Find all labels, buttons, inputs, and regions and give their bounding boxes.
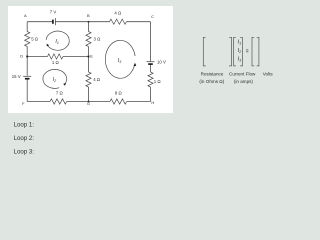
node E [88, 53, 94, 58]
wire A-B top segment [27, 21, 88, 23]
label 8 Ω [115, 91, 123, 96]
svg-text:E: E [90, 53, 93, 58]
resistor 4Ω (E-G) [86, 72, 91, 87]
svg-text:5 Ω: 5 Ω [31, 37, 39, 42]
svg-text:7 Ω: 7 Ω [56, 91, 64, 96]
label I2 vector entry [238, 48, 243, 54]
svg-text:Current Flow: Current Flow [229, 72, 256, 77]
label 5 Ω [31, 37, 39, 42]
node D [20, 53, 28, 58]
current vector left bracket [234, 37, 236, 66]
wire A-D left segment [26, 22, 28, 57]
label 1 Ω [154, 79, 162, 84]
wire D-E middle horizontal [27, 56, 88, 58]
svg-text:Loop 1:: Loop 1: [14, 121, 35, 128]
wire D-F left lower segment [26, 57, 28, 102]
label 15 V [12, 74, 21, 79]
battery 15V [23, 76, 31, 78]
label 3 Ω [94, 37, 102, 42]
resistor 8Ω (G-H) [110, 99, 127, 104]
svg-text:3 Ω: 3 Ω [94, 37, 102, 42]
label (in Ohms Ω) [199, 79, 224, 84]
svg-text:Volts: Volts [263, 71, 274, 76]
svg-text:7 V: 7 V [50, 9, 57, 14]
current vector right bracket [240, 37, 242, 66]
battery 7V [53, 18, 56, 25]
node B [87, 13, 90, 23]
node H [151, 100, 154, 105]
svg-text:15 V: 15 V [12, 74, 21, 79]
resistance matrix left bracket [203, 37, 205, 66]
label I1 [55, 39, 59, 45]
resistor 4Ω (B-C) [110, 19, 127, 24]
label I3 vector entry [238, 56, 243, 62]
battery 10V [147, 62, 155, 64]
label Loop 2 [14, 135, 35, 142]
label 7 V [50, 9, 57, 14]
resistor 1Ω (D-E) [48, 54, 63, 59]
equals sign [246, 50, 248, 52]
svg-text:Loop 2:: Loop 2: [14, 135, 35, 142]
svg-text:H: H [151, 100, 154, 105]
svg-text:C: C [151, 14, 154, 19]
wire E-G middle lower segment [88, 57, 90, 102]
label I3 [118, 58, 122, 64]
loop I3 arc [105, 40, 136, 78]
label Loop 3 [14, 148, 35, 155]
svg-text:(in Ohms Ω): (in Ohms Ω) [199, 79, 224, 84]
label 4 Ω [93, 77, 101, 82]
svg-text:4 Ω: 4 Ω [114, 11, 122, 16]
resistance matrix right bracket [229, 37, 231, 66]
wire F-G bottom segment [27, 101, 88, 103]
label Loop 1 [14, 121, 35, 128]
wire B-E middle segment [88, 22, 90, 57]
label 1 Ω [52, 60, 60, 65]
svg-text:4 Ω: 4 Ω [93, 77, 101, 82]
svg-text:Resistance: Resistance [201, 72, 224, 77]
resistor 1Ω (C-H) [148, 72, 153, 87]
label 4 Ω [114, 11, 122, 16]
label Volts [263, 71, 274, 76]
loop I1 arc [46, 31, 69, 50]
svg-text:(in amps): (in amps) [234, 79, 254, 84]
svg-text:D: D [20, 53, 23, 58]
svg-text:B: B [87, 13, 90, 18]
node C [151, 14, 154, 19]
label Current Flow [229, 72, 256, 77]
resistor 7Ω (F-G) [50, 99, 67, 104]
wire B-C top segment [89, 21, 151, 23]
resistor 5Ω (A-D) [25, 32, 30, 47]
svg-text:10 V: 10 V [157, 60, 166, 65]
volts vector left bracket [252, 37, 254, 66]
label 10 V [157, 60, 166, 65]
label I1 vector entry [238, 39, 242, 45]
svg-text:1 Ω: 1 Ω [52, 60, 60, 65]
label I2 [53, 77, 57, 83]
volts vector right bracket [257, 37, 259, 66]
node F [22, 101, 25, 106]
label (in amps) [234, 79, 254, 84]
svg-text:8 Ω: 8 Ω [115, 91, 123, 96]
label Resistance [201, 72, 224, 77]
svg-text:A: A [24, 13, 27, 18]
resistor 3Ω (B-E) [86, 32, 91, 47]
loop I2 arc [43, 69, 67, 88]
node G [87, 101, 90, 106]
svg-text:Loop 3:: Loop 3: [14, 148, 35, 155]
wire C-H right segment [150, 22, 152, 102]
wire G-H bottom segment [89, 101, 151, 103]
node A [24, 13, 27, 18]
label 7 Ω [56, 91, 64, 96]
svg-text:1 Ω: 1 Ω [154, 79, 162, 84]
